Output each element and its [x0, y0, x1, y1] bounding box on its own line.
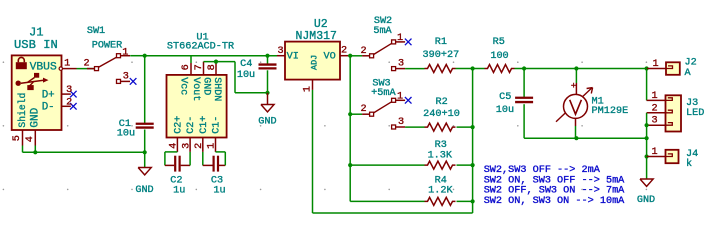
svg-text:C2+: C2+: [173, 116, 184, 134]
svg-text:VO: VO: [323, 51, 335, 62]
svg-text:+5mA: +5mA: [371, 88, 396, 99]
svg-text:2: 2: [83, 59, 89, 70]
svg-text:7: 7: [194, 64, 205, 70]
svg-text:D+: D+: [42, 90, 55, 102]
svg-text:3: 3: [181, 143, 192, 149]
svg-text:k: k: [686, 158, 692, 170]
svg-text:5: 5: [12, 135, 23, 141]
svg-text:5mA: 5mA: [373, 26, 392, 37]
svg-text:1u: 1u: [173, 186, 185, 197]
svg-text:3: 3: [651, 116, 657, 127]
svg-text:GND: GND: [258, 117, 276, 128]
svg-text:1: 1: [651, 147, 657, 158]
svg-text:GND: GND: [29, 107, 41, 127]
svg-text:100: 100: [490, 51, 508, 62]
svg-text:VI: VI: [287, 51, 299, 62]
svg-text:3: 3: [398, 117, 404, 128]
svg-text:ST662ACD-TR: ST662ACD-TR: [167, 41, 234, 52]
svg-text:NJM317: NJM317: [295, 30, 336, 43]
svg-text:C4: C4: [240, 59, 252, 70]
svg-text:1: 1: [122, 47, 128, 58]
svg-text:2: 2: [360, 104, 366, 115]
svg-text:390+27: 390+27: [423, 50, 460, 61]
svg-text:10u: 10u: [117, 128, 135, 139]
svg-text:2: 2: [341, 45, 347, 56]
svg-text:4: 4: [25, 136, 36, 142]
svg-text:R2: R2: [435, 97, 447, 108]
svg-text:1.3K: 1.3K: [428, 151, 453, 162]
svg-text:U2: U2: [314, 18, 328, 31]
svg-text:PM129E: PM129E: [592, 106, 629, 117]
svg-text:Vcc: Vcc: [178, 77, 189, 95]
svg-text:3: 3: [123, 71, 129, 82]
svg-text:LED: LED: [686, 108, 704, 119]
svg-text:10u: 10u: [237, 70, 255, 81]
svg-text:POWER: POWER: [92, 40, 123, 51]
svg-text:1: 1: [64, 59, 70, 70]
svg-text:1: 1: [397, 92, 403, 103]
svg-text:C1+: C1+: [199, 116, 210, 134]
svg-text:2: 2: [651, 103, 657, 114]
svg-text:2: 2: [194, 143, 205, 149]
svg-text:1: 1: [397, 33, 403, 44]
svg-text:2: 2: [360, 46, 366, 57]
svg-text:3: 3: [277, 46, 283, 57]
svg-text:1: 1: [651, 91, 657, 102]
svg-text:Shield: Shield: [17, 93, 28, 128]
svg-text:R1: R1: [435, 37, 447, 48]
svg-text:A: A: [685, 68, 692, 79]
svg-text:C1-: C1-: [212, 116, 223, 134]
svg-text:ADJ: ADJ: [309, 55, 319, 70]
svg-text:R3: R3: [435, 140, 447, 151]
svg-text:10u: 10u: [496, 105, 514, 116]
svg-text:1: 1: [207, 143, 218, 149]
svg-text:1u: 1u: [213, 186, 225, 197]
svg-text:GND: GND: [135, 185, 153, 196]
svg-text:USB IN: USB IN: [14, 38, 58, 52]
svg-text:GND: GND: [637, 195, 655, 206]
svg-text:VBUS: VBUS: [30, 61, 57, 73]
svg-text:SHDN: SHDN: [211, 77, 222, 101]
svg-text:1.2K: 1.2K: [428, 186, 453, 197]
svg-text:6: 6: [181, 64, 192, 70]
svg-text:1: 1: [653, 59, 659, 70]
svg-text:J2: J2: [685, 58, 697, 69]
svg-text:+: +: [571, 80, 577, 91]
svg-text:240+10: 240+10: [423, 109, 460, 120]
svg-text:2: 2: [66, 97, 72, 108]
svg-text:C5: C5: [499, 92, 511, 103]
svg-text:4: 4: [169, 143, 180, 149]
svg-text:D-: D-: [42, 102, 55, 114]
svg-text:3: 3: [398, 58, 404, 69]
svg-text:Vout: Vout: [190, 77, 201, 101]
svg-text:GND: GND: [201, 77, 212, 95]
svg-text:3: 3: [66, 85, 72, 96]
svg-text:C2-: C2-: [186, 116, 197, 134]
svg-text:R5: R5: [493, 37, 505, 48]
svg-text:SW1: SW1: [87, 26, 105, 37]
svg-text:SW2 ON, SW3 ON --> 10mA: SW2 ON, SW3 ON --> 10mA: [484, 196, 625, 207]
svg-text:8: 8: [207, 64, 218, 70]
